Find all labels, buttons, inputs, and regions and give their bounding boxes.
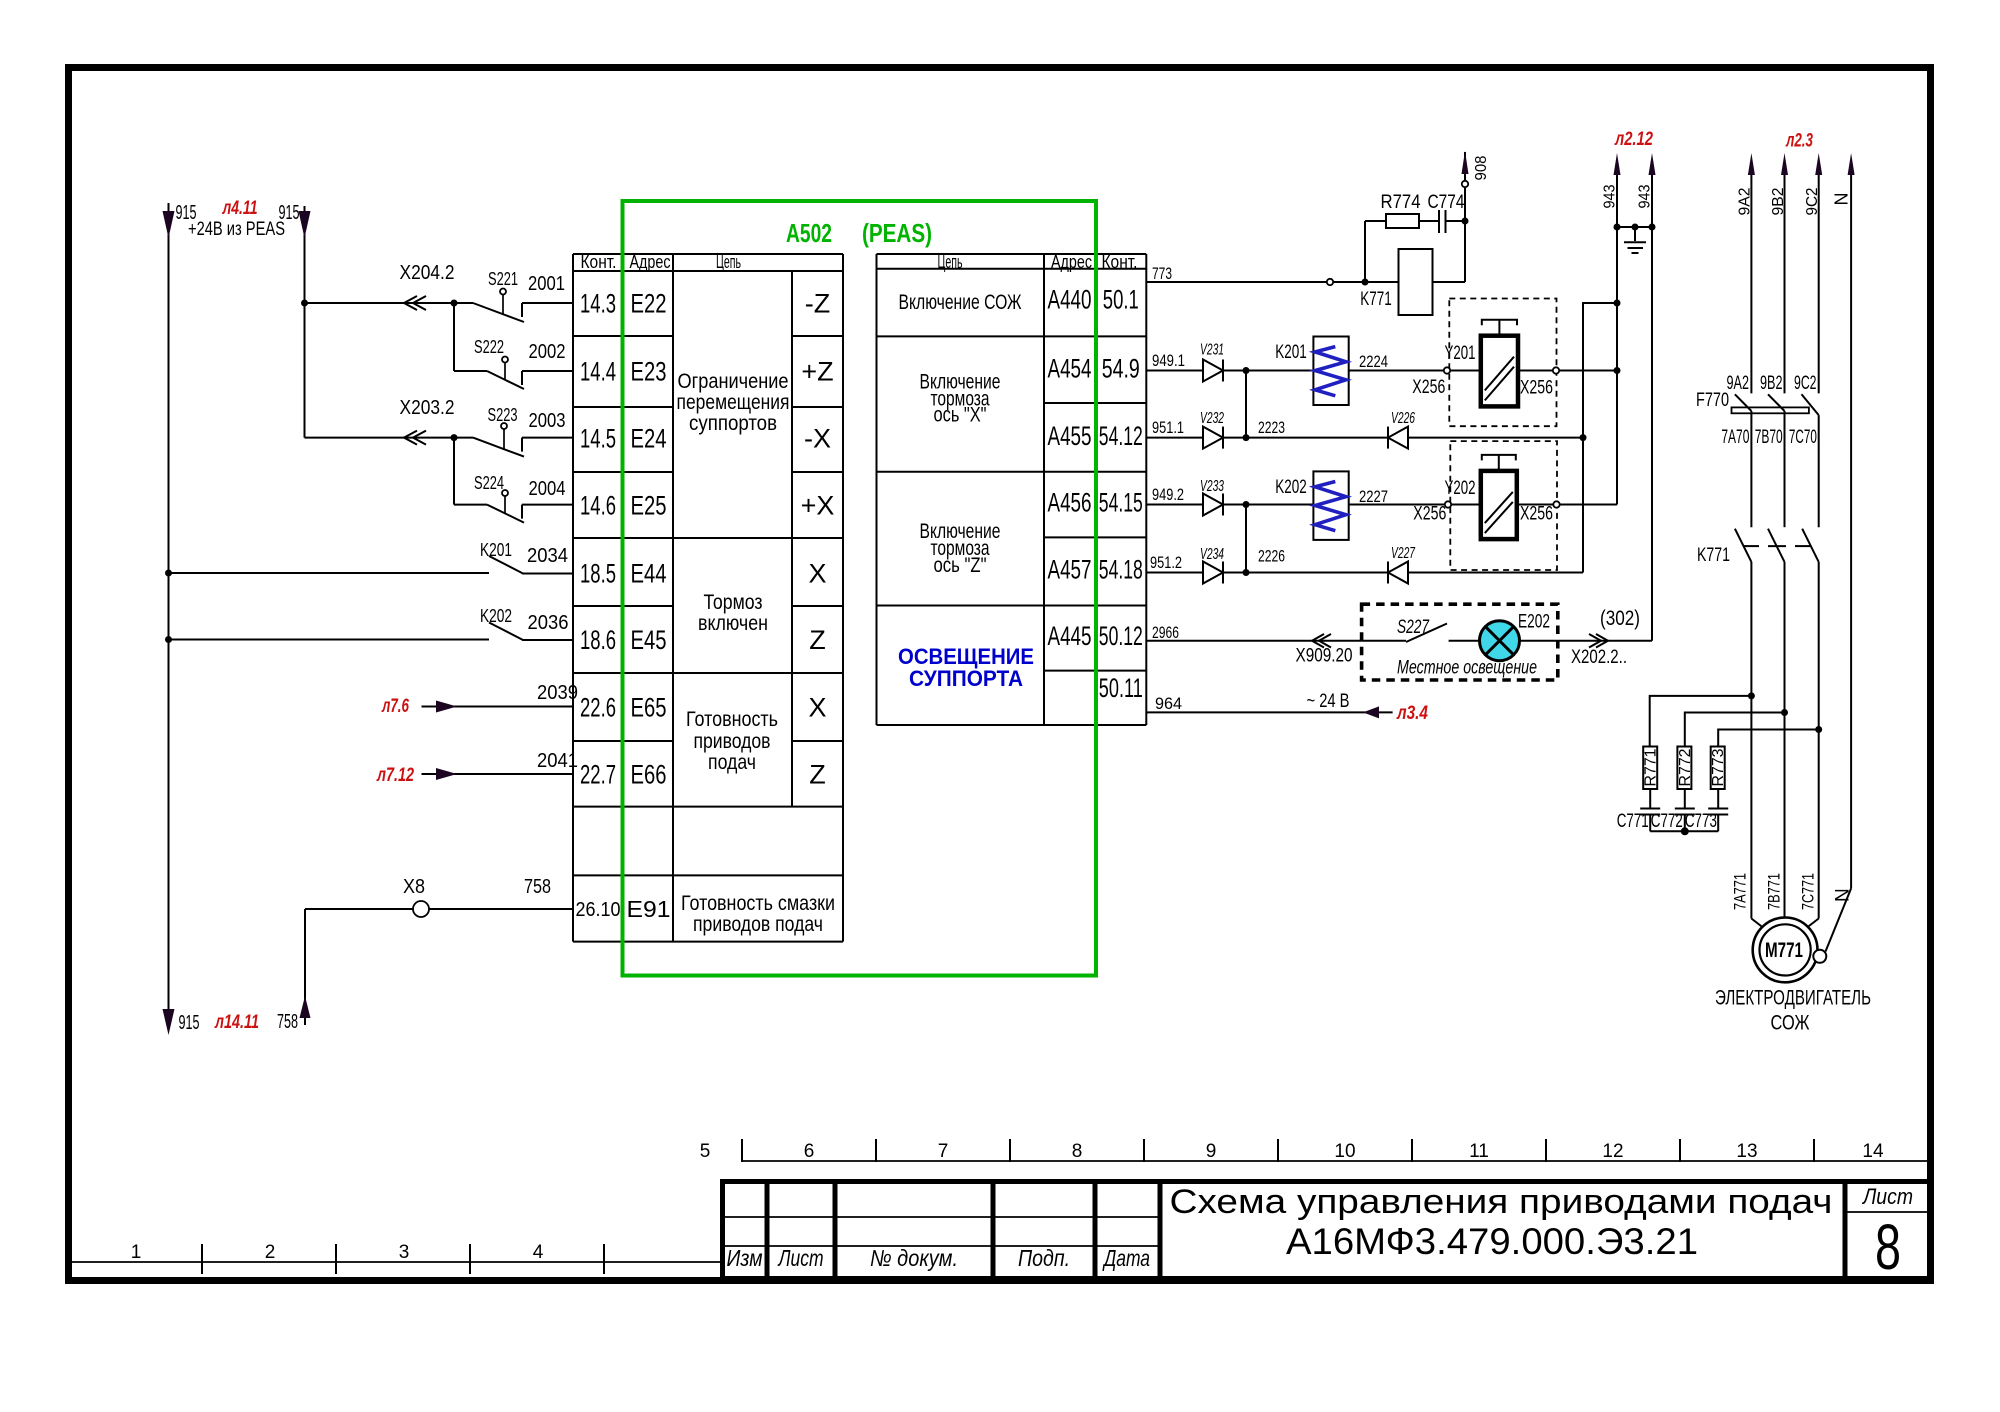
svg-text:A457: A457 (1048, 555, 1092, 585)
svg-text:+24В из PEAS: +24В из PEAS (188, 219, 285, 240)
wire RC to coil nodes (1365, 187, 1469, 282)
switch S223 (473, 405, 524, 457)
svg-text:№ докум.: № докум. (870, 1245, 958, 1271)
node 915 labels top (176, 198, 300, 240)
svg-text:2039: 2039 (537, 682, 578, 704)
svg-text:K771: K771 (1697, 545, 1730, 566)
svg-text:E24: E24 (631, 424, 667, 454)
ground symbol (1614, 224, 1656, 254)
resistor R772 (1677, 747, 1694, 790)
wire 2966 (1146, 623, 1361, 667)
svg-text:R772: R772 (1677, 748, 1694, 786)
svg-text:943: 943 (1637, 184, 1654, 208)
resistor R773 (1710, 747, 1727, 790)
svg-text:R771: R771 (1643, 748, 1660, 786)
svg-text:Изм: Изм (727, 1245, 763, 1271)
svg-text:Адрес: Адрес (1051, 252, 1092, 272)
svg-text:26.10: 26.10 (576, 899, 621, 921)
svg-text:7: 7 (938, 1141, 949, 1162)
svg-text:ЭЛЕКТРОДВИГАТЕЛЬ: ЭЛЕКТРОДВИГАТЕЛЬ (1715, 987, 1871, 1010)
svg-text:приводов: приводов (694, 730, 771, 753)
solenoid module Y202 with connector X256 (1413, 441, 1617, 570)
wire tie 2226 (1243, 501, 1286, 576)
svg-text:перемещения: перемещения (677, 391, 790, 414)
wire return riser right of Y modules (1580, 300, 1621, 573)
svg-text:964: 964 (1155, 694, 1182, 713)
wire N to motor terminal (1826, 888, 1852, 951)
wire 773 (1146, 264, 1398, 286)
diode V234 wire 951.2 (1146, 546, 1388, 584)
svg-text:ось "Z": ось "Z" (934, 554, 987, 577)
lamp E202 (1449, 612, 1550, 661)
wire 2002 (522, 341, 573, 371)
svg-text:2003: 2003 (529, 410, 566, 432)
svg-text:E65: E65 (631, 693, 667, 723)
svg-text:7C70: 7C70 (1789, 427, 1817, 448)
svg-text:Y202: Y202 (1445, 478, 1476, 499)
svg-text:V234: V234 (1200, 546, 1224, 563)
resistor R774 (1365, 192, 1421, 228)
svg-text:СОЖ: СОЖ (1771, 1012, 1810, 1035)
switch S222 (474, 337, 524, 389)
svg-text:Ограничение: Ограничение (678, 370, 789, 393)
svg-text:54.18: 54.18 (1099, 555, 1143, 585)
svg-text:F770: F770 (1696, 390, 1729, 411)
svg-text:943: 943 (1602, 184, 1619, 208)
svg-text:949.1: 949.1 (1152, 351, 1185, 370)
svg-text:951.2: 951.2 (1150, 553, 1182, 572)
wire 915 bus B (299, 206, 311, 438)
svg-text:X8: X8 (403, 876, 425, 898)
switch S227 (1362, 617, 1447, 642)
svg-text:4: 4 (533, 1242, 544, 1263)
wire 2039 from node л7.6 (381, 682, 578, 717)
svg-text:(PEAS): (PEAS) (862, 218, 932, 248)
wire X204.2 branch (301, 262, 473, 310)
svg-text:949.2: 949.2 (1152, 485, 1184, 504)
svg-text:Тормоз: Тормоз (704, 591, 763, 614)
diode V227 (1388, 545, 1583, 584)
svg-text:суппортов: суппортов (689, 412, 777, 435)
relay coil K771 (1360, 249, 1432, 315)
svg-text:K202: K202 (1275, 477, 1307, 498)
contact K202 wire 2036 (165, 606, 573, 643)
svg-text:A456: A456 (1048, 488, 1092, 518)
svg-text:Конт.: Конт. (581, 252, 617, 272)
svg-text:Готовность: Готовность (686, 708, 778, 731)
motor phase labels 7A771 7B771 7C771 N (1731, 873, 1854, 910)
svg-text:54.15: 54.15 (1099, 488, 1143, 518)
drawing frame border (69, 68, 1931, 1281)
svg-text:773: 773 (1152, 264, 1172, 283)
svg-text:Конт.: Конт. (1102, 252, 1138, 272)
svg-text:Включение СОЖ: Включение СОЖ (899, 291, 1022, 314)
svg-text:9B2: 9B2 (1760, 373, 1783, 394)
svg-text:V231: V231 (1200, 342, 1224, 359)
wire capacitor common bus (1650, 827, 1718, 835)
svg-text:2002: 2002 (529, 341, 566, 363)
svg-text:3: 3 (399, 1242, 410, 1263)
svg-text:2224: 2224 (1359, 352, 1388, 371)
svg-text:7A771: 7A771 (1731, 873, 1750, 910)
wire X203.2 branch (305, 397, 474, 445)
svg-text:13: 13 (1736, 1141, 1757, 1162)
svg-text:2226: 2226 (1258, 547, 1285, 566)
svg-text:приводов подач: приводов подач (693, 913, 823, 936)
svg-text:18.6: 18.6 (580, 625, 616, 655)
svg-text:X: X (808, 693, 826, 723)
svg-text:8: 8 (1072, 1141, 1083, 1162)
svg-text:10: 10 (1334, 1141, 1355, 1162)
svg-text:K771: K771 (1360, 289, 1392, 310)
wire branch to S224 (453, 438, 455, 505)
svg-text:C771: C771 (1617, 811, 1649, 832)
svg-text:2: 2 (265, 1242, 276, 1263)
diode V226 (1388, 410, 1583, 449)
svg-text:S223: S223 (488, 405, 518, 425)
svg-text:л2.3: л2.3 (1785, 131, 1813, 152)
phase riser 9C2 (1804, 153, 1822, 393)
svg-text:Подп.: Подп. (1018, 1245, 1070, 1271)
svg-text:подач: подач (708, 751, 756, 774)
svg-text:2227: 2227 (1359, 487, 1388, 506)
svg-text:12: 12 (1602, 1141, 1623, 1162)
svg-text:X203.2: X203.2 (400, 397, 455, 419)
svg-text:X204.2: X204.2 (400, 262, 455, 284)
phase wires F770 to K771 (1751, 411, 1818, 527)
svg-text:л3.4: л3.4 (1396, 703, 1428, 724)
svg-text:S224: S224 (474, 473, 504, 493)
svg-text:S227: S227 (1397, 617, 1430, 638)
svg-text:X: X (808, 559, 826, 589)
svg-text:50.1: 50.1 (1103, 285, 1139, 315)
svg-text:C773: C773 (1685, 811, 1717, 832)
svg-text:V233: V233 (1200, 478, 1224, 495)
svg-text:908: 908 (1473, 155, 1490, 180)
svg-text:включен: включен (698, 612, 768, 635)
svg-text:C772: C772 (1651, 811, 1683, 832)
svg-text:18.5: 18.5 (580, 559, 616, 589)
wire 2004 (522, 478, 573, 505)
switch S221 (473, 269, 524, 322)
wire 943 left riser (1602, 153, 1621, 505)
wire 964 from node л3.4 (1146, 691, 1428, 724)
svg-text:Z: Z (809, 625, 826, 655)
svg-text:A445: A445 (1048, 621, 1092, 651)
neutral riser N (1832, 153, 1855, 888)
svg-text:758: 758 (524, 876, 551, 898)
svg-text:14: 14 (1862, 1141, 1884, 1162)
phase riser 9B2 (1770, 153, 1788, 393)
wire 943 right riser (1637, 153, 1656, 641)
svg-text:-X: -X (804, 424, 831, 454)
svg-text:2034: 2034 (527, 545, 568, 567)
svg-text:X909.20: X909.20 (1296, 646, 1353, 667)
svg-text:9A2: 9A2 (1737, 187, 1754, 215)
svg-text:E44: E44 (631, 559, 667, 589)
svg-text:E22: E22 (631, 289, 667, 319)
svg-text:л7.6: л7.6 (381, 696, 409, 717)
connector table A502 right side (877, 252, 1147, 725)
upper zone ruler (700, 1139, 1927, 1162)
svg-text:-Z: -Z (805, 289, 830, 319)
svg-text:2036: 2036 (528, 612, 569, 634)
svg-text:9A2: 9A2 (1727, 373, 1750, 394)
capacitor C774 (1419, 192, 1465, 233)
svg-text:Схема управления приводами под: Схема управления приводами подач (1170, 1183, 1833, 1221)
diode V232 wire 951.1 (1146, 410, 1388, 449)
svg-text:14.3: 14.3 (580, 289, 616, 319)
svg-text:Дата: Дата (1102, 1245, 1150, 1271)
svg-text:9C2: 9C2 (1794, 373, 1817, 394)
svg-text:5: 5 (700, 1141, 711, 1162)
svg-text:Лист: Лист (1861, 1184, 1913, 1209)
module A502 green boundary (623, 201, 1097, 976)
svg-text:E23: E23 (631, 357, 667, 387)
phase wires to motor (1748, 562, 1822, 928)
svg-text:E66: E66 (631, 760, 667, 790)
svg-text:V227: V227 (1391, 545, 1416, 562)
wire 908 up arrow (1462, 151, 1491, 187)
svg-text:X256: X256 (1413, 504, 1446, 525)
wire 2001 (522, 273, 573, 303)
diode V233 wire 949.2 (1146, 478, 1313, 516)
svg-text:7B771: 7B771 (1765, 873, 1784, 910)
svg-text:+X: +X (801, 491, 835, 521)
title block (722, 1181, 1930, 1283)
wire branches to RC filters (1650, 696, 1819, 747)
svg-text:2041: 2041 (537, 750, 578, 772)
capacitor C771 (1617, 789, 1661, 832)
svg-text:A440: A440 (1048, 285, 1092, 315)
lamp unit dashed box Местное освещение (1362, 604, 1558, 680)
svg-text:E91: E91 (627, 896, 671, 922)
svg-text:A454: A454 (1048, 354, 1092, 384)
svg-text:E45: E45 (631, 625, 667, 655)
svg-text:22.6: 22.6 (580, 693, 616, 723)
wire 915 bus A (163, 203, 175, 1035)
bottom zone ruler (72, 1242, 722, 1274)
svg-text:Z: Z (809, 760, 826, 790)
contactor contacts K771 (1697, 529, 1819, 566)
wire 2003 (522, 410, 573, 438)
svg-text:X256: X256 (1520, 378, 1553, 399)
disconnector F770 (1696, 373, 1819, 448)
phase riser 9A2 (1737, 153, 1755, 393)
svg-text:V226: V226 (1391, 410, 1415, 427)
wire tie 2223 (1243, 367, 1286, 441)
contact K201 wire 2034 (165, 540, 573, 577)
svg-text:50.11: 50.11 (1099, 673, 1143, 703)
svg-text:2223: 2223 (1258, 418, 1285, 437)
svg-text:K201: K201 (480, 540, 512, 560)
node 915 labels bottom (179, 1011, 299, 1034)
svg-text:7B70: 7B70 (1755, 427, 1783, 448)
svg-text:ось "X": ось "X" (934, 404, 987, 427)
svg-text:9C2: 9C2 (1804, 187, 1821, 215)
svg-text:A455: A455 (1048, 421, 1092, 451)
svg-text:E25: E25 (631, 491, 667, 521)
svg-text:54.9: 54.9 (1102, 354, 1140, 384)
svg-text:14.6: 14.6 (580, 491, 616, 521)
svg-text:K201: K201 (1275, 342, 1307, 363)
svg-text:758: 758 (277, 1011, 298, 1033)
svg-text:V232: V232 (1200, 410, 1224, 427)
wire 758 riser (300, 909, 311, 1025)
svg-text:(302): (302) (1600, 607, 1640, 630)
wire branch to S222 (453, 303, 455, 371)
svg-text:Y201: Y201 (1445, 343, 1476, 364)
svg-text:S222: S222 (474, 337, 504, 357)
wire 2041 from node л7.12 (376, 750, 578, 786)
svg-text:7A70: 7A70 (1721, 427, 1749, 448)
capacitor C773 (1685, 789, 1728, 832)
svg-text:л4.11: л4.11 (222, 198, 258, 219)
svg-text:Лист: Лист (777, 1245, 824, 1271)
svg-text:22.7: 22.7 (580, 760, 616, 790)
svg-text:X202.2..: X202.2.. (1571, 647, 1627, 668)
svg-text:E202: E202 (1518, 612, 1550, 633)
svg-text:951.1: 951.1 (1152, 418, 1184, 437)
svg-text:л14.11: л14.11 (214, 1012, 259, 1033)
svg-text:C774: C774 (1428, 192, 1465, 213)
svg-text:54.12: 54.12 (1099, 421, 1143, 451)
svg-text:СУППОРТА: СУППОРТА (909, 666, 1023, 691)
svg-text:Адрес: Адрес (630, 252, 671, 272)
svg-text:2966: 2966 (1152, 623, 1179, 642)
svg-text:Готовность смазки: Готовность смазки (681, 892, 835, 915)
svg-text:915: 915 (179, 1012, 200, 1034)
svg-text:7C771: 7C771 (1799, 873, 1818, 910)
capacitor C772 (1651, 789, 1695, 832)
svg-text:2001: 2001 (528, 273, 565, 295)
solenoid module Y201 with connector X256 (1412, 299, 1620, 427)
svg-text:9B2: 9B2 (1770, 187, 1787, 215)
wire 758 with connector X8 (305, 876, 573, 917)
svg-text:9: 9 (1206, 1141, 1217, 1162)
svg-text:1: 1 (131, 1242, 142, 1263)
svg-text:X256: X256 (1412, 377, 1445, 398)
svg-text:K202: K202 (480, 606, 512, 626)
svg-text:2004: 2004 (529, 478, 566, 500)
diode V231 wire 949.1 (1146, 342, 1313, 382)
svg-text:S221: S221 (488, 269, 518, 289)
svg-text:Цепь: Цепь (716, 252, 741, 272)
relay coil K201 wire 2224 (1275, 337, 1444, 406)
svg-text:X256: X256 (1520, 504, 1553, 525)
svg-text:л2.12: л2.12 (1614, 129, 1653, 150)
svg-text:R774: R774 (1381, 192, 1421, 213)
svg-text:N: N (1832, 193, 1852, 206)
svg-text:А16МФ3.479.000.Э3.21: А16МФ3.479.000.Э3.21 (1286, 1221, 1698, 1262)
svg-text:л7.12: л7.12 (376, 765, 414, 786)
motor M771 (1715, 918, 1871, 1035)
svg-text:14.5: 14.5 (580, 424, 616, 454)
svg-text:М771: М771 (1765, 939, 1803, 962)
svg-text:~ 24 В: ~ 24 В (1307, 691, 1350, 712)
connector table A502 left side (573, 252, 843, 942)
svg-text:8: 8 (1875, 1211, 1901, 1283)
wire to connector X202.2 (1519, 607, 1652, 668)
switch S224 (474, 473, 524, 523)
svg-text:Цепь: Цепь (938, 252, 963, 272)
relay coil K202 wire 2227 (1275, 471, 1444, 540)
svg-text:А502: А502 (786, 218, 832, 248)
svg-text:14.4: 14.4 (580, 357, 616, 387)
svg-text:50.12: 50.12 (1099, 621, 1143, 651)
svg-text:+Z: +Z (801, 357, 833, 387)
svg-text:11: 11 (1469, 1141, 1489, 1162)
svg-text:Местное освещение: Местное освещение (1397, 658, 1537, 679)
svg-text:6: 6 (804, 1141, 815, 1162)
resistor R771 (1643, 747, 1660, 790)
svg-text:R773: R773 (1710, 748, 1727, 786)
